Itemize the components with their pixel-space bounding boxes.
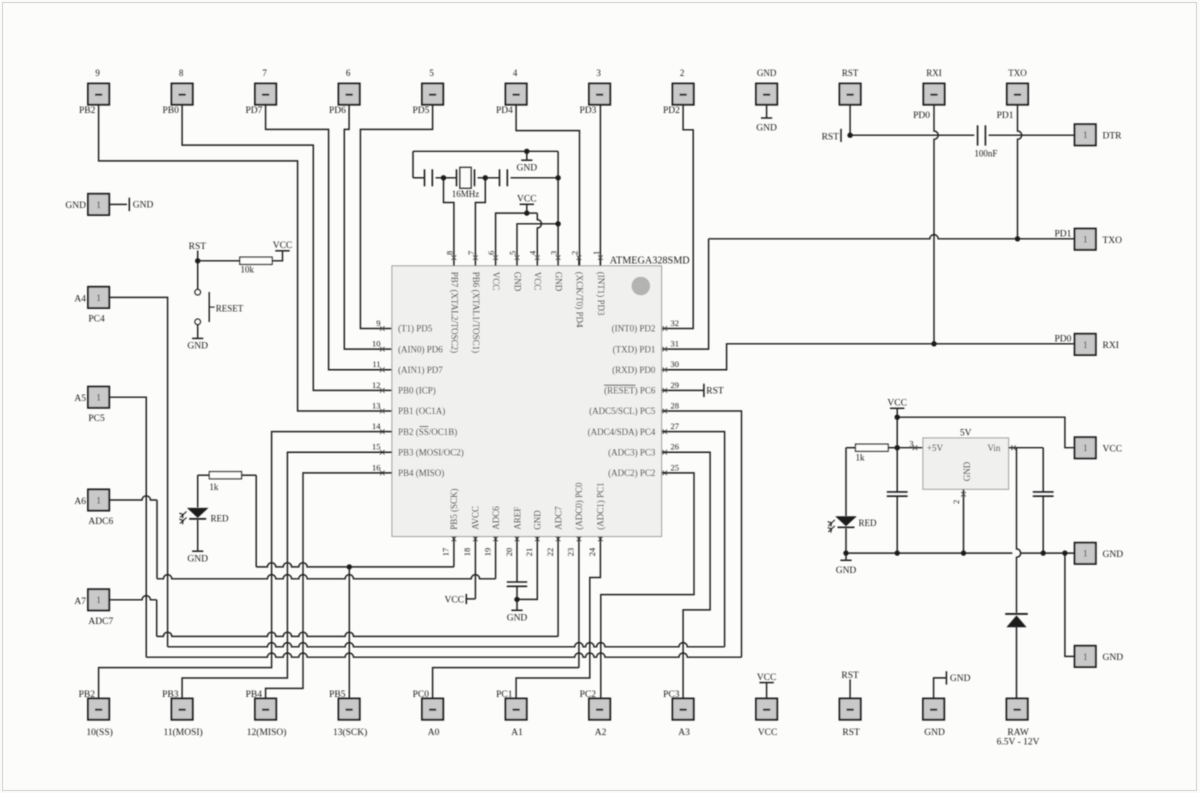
svg-text:9: 9 (376, 318, 380, 328)
svg-text:11(MOSI): 11(MOSI) (163, 727, 202, 738)
wire C7 to rail (1042, 497, 1044, 553)
wire D1 to RAW pad (1016, 627, 1018, 698)
svg-text:AREF: AREF (512, 507, 522, 530)
wire C3 to crystal (436, 177, 457, 179)
svg-text:GND: GND (517, 164, 538, 174)
wire A5 to PC5 (pin28) vertical run (109, 397, 146, 657)
svg-text:12(MISO): 12(MISO) (247, 727, 287, 738)
svg-text:13(SCK): 13(SCK) (333, 727, 367, 738)
wire GND pad to ground bottom (934, 678, 947, 699)
wire switch to ground (197, 325, 199, 338)
wire AVCC pin18 to VCC (474, 537, 476, 599)
IC pin 2 (XCK/T0) PD4 (top) (578, 256, 580, 266)
pad GND left header (88, 194, 109, 215)
IC pin 32 (INT0) PD2 (right) (663, 326, 668, 331)
IC U1 ATMEGA328SMD body (392, 266, 662, 537)
IC pin 1 (INT1) PD3 (top) (599, 256, 601, 266)
switch S1 RESET (195, 289, 201, 295)
IC pin 29 (RESET) PC6 (right) (663, 388, 668, 393)
wire pin23 to PC0 pad (578, 537, 580, 668)
pad GND right header (1075, 543, 1096, 564)
svg-text:3: 3 (596, 68, 601, 78)
svg-text:6.5V - 12V: 6.5V - 12V (997, 738, 1040, 748)
IC pin 8 PB7 (XTAL2/TOSC2) (top) (453, 256, 455, 266)
svg-text:PD6: PD6 (329, 106, 346, 116)
wire left down to crystal row (412, 151, 414, 178)
wire AREF pin20 to C5 (516, 537, 518, 582)
svg-text:6: 6 (346, 68, 351, 78)
resistor R3 1k (856, 444, 889, 451)
pad A7 (ADC7) left header (88, 589, 109, 610)
IC pin 12 PB0 (ICP) (left) (380, 388, 385, 393)
svg-text:VCC: VCC (517, 195, 537, 205)
svg-text:PB0 (ICP): PB0 (ICP) (398, 386, 436, 396)
pad RAW bottom header (1007, 699, 1028, 720)
wire VCC to VCC pad (897, 417, 1074, 448)
IC pin 25 (ADC2) PC2 (right) (663, 471, 668, 476)
junction GND top (524, 149, 529, 154)
IC pin 19 ADC6 (bottom) (493, 537, 498, 542)
IC pin 6 VCC (top) (495, 256, 497, 266)
IC pin 4 VCC (top) (536, 256, 538, 266)
wire PB5 pad riser (348, 567, 350, 698)
IC pin 31 (TXD) PD1 (right) (663, 347, 668, 352)
svg-text:5: 5 (507, 251, 517, 255)
svg-text:8: 8 (444, 251, 454, 255)
junction VCC top (524, 210, 529, 215)
IC pin 9 (T1) PD5 (left) (380, 326, 385, 331)
svg-text:(RXD) PD0: (RXD) PD0 (612, 365, 656, 375)
wire pin15 to PB3 pad (182, 452, 392, 698)
junction SCK / PB5 pad (347, 564, 352, 569)
pad RST bottom header (840, 699, 861, 720)
svg-text:10: 10 (372, 339, 381, 349)
wire ADC6 line to pin19 (hops) (157, 575, 496, 579)
svg-text:GND: GND (924, 728, 945, 738)
svg-text:GND: GND (554, 272, 564, 292)
wire RST to R2 (198, 260, 240, 262)
svg-text:10(SS): 10(SS) (86, 727, 112, 738)
VCC symbol bottom VCC pad (759, 682, 773, 684)
wire A5 line to pin28 (hops) (146, 653, 741, 657)
svg-text:7: 7 (466, 251, 476, 255)
wire A7 to ADC7 (pin22), hops A5 run (109, 596, 157, 600)
node RST at pin29 (662, 389, 704, 391)
svg-text:(RESET) PC6: (RESET) PC6 (604, 386, 656, 396)
svg-text:1: 1 (1083, 235, 1088, 245)
svg-text:25: 25 (671, 462, 680, 472)
svg-text:PB0: PB0 (163, 106, 180, 116)
svg-text:VCC: VCC (491, 272, 501, 291)
wire PD6 pad6 to pin10 (344, 105, 392, 349)
wire PD4 pad4 to pin2 (516, 105, 579, 266)
svg-text:1: 1 (96, 595, 101, 605)
wire GND pin5 to pin3 rail (517, 224, 558, 256)
ground symbol power rail (845, 553, 847, 560)
svg-text:21: 21 (524, 548, 534, 557)
IC pin 18 AVCC (bottom) (473, 537, 478, 542)
svg-text:ADC6: ADC6 (491, 506, 501, 530)
svg-text:PD3: PD3 (579, 106, 596, 116)
IC pin 10 (AIN0) PD6 (left) (380, 347, 385, 352)
wire A4 to PC4 (pin27) vertical run (109, 297, 167, 646)
IC pin 26 (ADC3) PC3 (right) (663, 450, 668, 455)
svg-text:RST: RST (822, 132, 840, 142)
capacitor C5 AREF (507, 581, 527, 583)
svg-text:2: 2 (680, 68, 685, 78)
svg-text:18: 18 (462, 548, 472, 557)
svg-text:A1: A1 (511, 728, 523, 738)
wire A6 to ADC6 (pin19), hops A5 run (109, 496, 157, 500)
junction VCC reg top (895, 415, 900, 420)
wire GND rail down to pin3 (557, 178, 559, 256)
svg-text:100nF: 100nF (974, 149, 997, 159)
wire pin14 to PB2 pad (99, 432, 392, 698)
wire crystal top GND rail (413, 150, 558, 152)
svg-text:TXO: TXO (1008, 68, 1027, 78)
svg-text:(ADC5/SCL) PC5: (ADC5/SCL) PC5 (589, 406, 656, 416)
svg-text:PB2: PB2 (79, 106, 96, 116)
ground symbol reset switch (192, 337, 203, 339)
IC pin 16 PB4 (MISO) (left) (380, 471, 385, 476)
svg-text:GND: GND (962, 461, 972, 481)
capacitor C2 100nF (977, 125, 979, 145)
wire R3 to +5V node (888, 447, 897, 449)
svg-text:8: 8 (179, 68, 184, 78)
wire pin24 to PC1 pad (jog) (516, 537, 600, 699)
svg-text:PB3 (MOSI/OC2): PB3 (MOSI/OC2) (398, 447, 464, 457)
junction xtal left (441, 175, 446, 180)
svg-text:(ADC1) PC1: (ADC1) PC1 (596, 483, 606, 530)
svg-text:RST: RST (842, 728, 860, 738)
svg-text:GND: GND (512, 272, 522, 292)
ground symbol below GND pad (766, 105, 768, 118)
svg-text:PB1 (OC1A): PB1 (OC1A) (398, 406, 445, 416)
svg-text:9: 9 (95, 68, 100, 78)
wire Vin node to C7 (1017, 447, 1044, 449)
svg-text:DTR: DTR (1103, 132, 1123, 142)
capacitor C3 (left xtal cap) (424, 169, 426, 186)
svg-text:ATMEGA328SMD: ATMEGA328SMD (610, 255, 690, 266)
junction xtal right (483, 175, 488, 180)
svg-text:2: 2 (951, 500, 961, 504)
svg-text:PB4 (MISO): PB4 (MISO) (398, 468, 444, 478)
svg-text:1: 1 (1083, 549, 1088, 559)
svg-text:VCC: VCC (533, 272, 543, 291)
IC pin 14 PB2 (SS/OC1B) (left) (380, 429, 385, 434)
pad A4 (PC4) left header (88, 287, 109, 308)
IC pin 21 GND (bottom) (535, 537, 540, 542)
svg-text:10k: 10k (240, 264, 254, 274)
junction C6 gnd (895, 550, 900, 555)
crystal Q1 16MHz (456, 169, 458, 186)
svg-text:3: 3 (909, 438, 913, 448)
wire RST to switch S1 (197, 261, 199, 289)
svg-text:PD2: PD2 (663, 106, 680, 116)
svg-text:16: 16 (372, 462, 381, 472)
svg-text:(XCK/T0) PD4: (XCK/T0) PD4 (574, 272, 584, 328)
svg-text:1: 1 (96, 393, 101, 403)
wire PD7 pad7 to pin11 (266, 105, 392, 370)
wire R1 left to LED1 (198, 474, 210, 476)
IC pin 27 (ADC4/SDA) PC4 (right) (663, 429, 668, 434)
svg-text:PB5 (SCK): PB5 (SCK) (449, 489, 459, 530)
wire regulator Vin pin to RAW/diode node (1009, 447, 1017, 449)
wire pin30 RXD to RXI pad (662, 344, 1075, 370)
diode D1 (1006, 615, 1026, 627)
capacitor C4 (right xtal cap) (499, 169, 501, 186)
svg-text:ADC7: ADC7 (553, 506, 563, 530)
svg-text:VCC: VCC (444, 596, 464, 606)
wire crystal to C4 (478, 177, 500, 179)
svg-text:PD0: PD0 (913, 111, 930, 121)
pad VCC right header (1075, 437, 1096, 458)
svg-text:(TXD) PD1: (TXD) PD1 (613, 344, 656, 354)
svg-text:VCC: VCC (757, 673, 777, 683)
wire PB0 pad8 to pin12 (182, 105, 392, 391)
wire C4 to GND drop (511, 177, 559, 179)
pad GND2 right header (1075, 646, 1096, 667)
svg-text:6: 6 (486, 251, 496, 255)
svg-text:(INT0) PD2: (INT0) PD2 (612, 324, 656, 334)
svg-text:VCC: VCC (887, 399, 907, 409)
svg-text:A6: A6 (74, 497, 86, 507)
VCC symbol above IC (520, 203, 534, 205)
wire pin25 to PC2 pad (601, 473, 694, 698)
svg-text:PD4: PD4 (496, 106, 513, 116)
junction right xtal rail (555, 175, 560, 180)
junction gnd rail to GND2 drop (1062, 550, 1067, 555)
svg-text:23: 23 (566, 548, 576, 557)
wire gnd rail to GND2 pad (1065, 553, 1074, 656)
pad DTR right header (1075, 124, 1096, 145)
wire TXO pad down to TXD net (hops DTR wire) (1018, 105, 1022, 239)
wire pin27 riser (662, 432, 725, 647)
IC pin 23 (ADC0) PC0 (bottom) (577, 537, 582, 542)
junction AREF gnd (514, 597, 519, 602)
svg-text:RED: RED (859, 518, 878, 528)
svg-text:GND: GND (1103, 653, 1124, 663)
capacitor C6 (VCC filter) (887, 491, 908, 493)
svg-text:5: 5 (429, 68, 434, 78)
wire PD2 pad2 to pin32 (662, 105, 694, 329)
svg-text:A3: A3 (678, 728, 690, 738)
wire R2 to VCC (272, 251, 282, 261)
wire GND pin21 (517, 537, 537, 600)
svg-text:GND: GND (65, 201, 86, 211)
wire R1 to SCK net riser (242, 474, 257, 476)
svg-text:GND: GND (533, 510, 543, 530)
IC pin1 marker circle (632, 277, 651, 296)
svg-text:1k: 1k (209, 482, 219, 492)
capacitor C7 (Vin filter) (1033, 491, 1054, 493)
wire xtal right riser to pin7 (475, 178, 485, 256)
IC pin 11 (AIN1) PD7 (left) (380, 367, 385, 372)
VCC symbol regulator (890, 407, 904, 409)
junction LED2 gnd (843, 550, 848, 555)
svg-text:(T1) PD5: (T1) PD5 (398, 324, 433, 334)
junction +5V node (895, 445, 900, 450)
svg-text:11: 11 (372, 359, 380, 369)
svg-text:VCC: VCC (758, 728, 778, 738)
svg-text:GND: GND (756, 124, 777, 134)
svg-text:A2: A2 (595, 728, 607, 738)
wire pin31 TXD to TXO pad (662, 239, 709, 349)
svg-text:12: 12 (372, 380, 381, 390)
svg-text:1: 1 (1083, 443, 1088, 453)
wire PD5 pad5 to pin9 (360, 105, 432, 329)
svg-text:(AIN0) PD6: (AIN0) PD6 (398, 344, 443, 354)
svg-text:Vin: Vin (987, 443, 1000, 453)
svg-text:1: 1 (96, 495, 101, 505)
resistor R2 10k (240, 257, 272, 264)
svg-text:PB2 (SS/OC1B): PB2 (SS/OC1B) (398, 427, 457, 437)
wire A4 line to pin27 (hops) (168, 643, 725, 647)
IC pin 20 AREF (bottom) (515, 537, 520, 542)
IC pin 15 PB3 (MOSI/OC2) (left) (380, 450, 385, 455)
svg-text:19: 19 (482, 548, 492, 557)
svg-text:3: 3 (549, 251, 559, 255)
svg-text:(ADC4/SDA) PC4: (ADC4/SDA) PC4 (588, 427, 656, 437)
svg-text:1k: 1k (856, 452, 866, 462)
IC pin 5 GND (top) (516, 256, 518, 266)
svg-text:22: 22 (545, 548, 555, 557)
junction RST (847, 133, 852, 138)
wire R3 left to LED2 (846, 447, 856, 449)
ground symbol AREF (516, 599, 518, 610)
svg-text:+5V: +5V (927, 443, 944, 453)
svg-text:RESET: RESET (216, 303, 244, 313)
wire GND drop right side (557, 151, 559, 178)
wire +5V to regulator pin3 (897, 447, 923, 449)
wire GND pad to ground (109, 203, 127, 205)
junction C7 gnd (1041, 550, 1046, 555)
svg-text:GND: GND (133, 201, 154, 211)
wire C5 to ground junction (516, 586, 518, 599)
svg-text:GND: GND (187, 554, 208, 564)
svg-text:RST: RST (706, 387, 724, 397)
svg-text:7: 7 (262, 68, 267, 78)
svg-text:1: 1 (591, 251, 601, 255)
svg-text:1: 1 (1083, 340, 1088, 350)
VCC symbol AVCC (465, 594, 467, 604)
pad GND bottom header (923, 699, 944, 720)
svg-text:A4: A4 (74, 294, 86, 304)
svg-text:PD7: PD7 (245, 106, 262, 116)
ground symbol bottom GND pad (945, 671, 947, 684)
svg-text:A0: A0 (428, 728, 440, 738)
voltage regulator VR1 5V body (923, 438, 1009, 489)
wire ADC7 line to pin22 (hops) (157, 632, 558, 636)
svg-text:20: 20 (504, 548, 514, 557)
IC pin 28 (ADC5/SCL) PC5 (right) (663, 409, 668, 414)
pad TXO right header (1075, 229, 1096, 250)
IC pin 17 PB5 (SCK) (bottom) (452, 537, 457, 542)
svg-text:30: 30 (671, 359, 680, 369)
svg-text:(INT1) PD3: (INT1) PD3 (596, 272, 606, 316)
IC pin 24 (ADC1) PC1 (bottom) (598, 537, 603, 542)
IC pin 3 GND (top) (557, 256, 559, 266)
svg-text:TXO: TXO (1103, 236, 1123, 246)
svg-text:4: 4 (513, 68, 518, 78)
IC pin 13 PB1 (OC1A) (left) (380, 409, 385, 414)
ground symbol LED1 (192, 550, 203, 552)
pad VCC bottom header (756, 699, 777, 720)
junction RST reset (195, 258, 200, 263)
svg-text:14: 14 (372, 421, 381, 431)
wire VCC to pin6 (496, 213, 527, 256)
svg-text:PD1: PD1 (1055, 230, 1072, 240)
svg-text:5V: 5V (960, 428, 972, 438)
LED1 RED (187, 508, 209, 518)
wire RXI pad down to RXD net (hops RST wire) (934, 105, 938, 344)
svg-text:31: 31 (671, 339, 680, 349)
svg-text:AVCC: AVCC (471, 506, 481, 530)
svg-text:28: 28 (671, 400, 680, 410)
junction TXO/PD1 (1015, 236, 1020, 241)
svg-text:17: 17 (441, 548, 451, 557)
svg-text:1: 1 (96, 293, 101, 303)
svg-text:13: 13 (372, 400, 381, 410)
svg-text:PC4: PC4 (88, 314, 105, 324)
svg-text:RXI: RXI (1103, 341, 1119, 351)
gnd rail power section (846, 552, 1012, 554)
svg-text:2: 2 (569, 251, 579, 255)
svg-text:PB7 (XTAL2/TOSC2): PB7 (XTAL2/TOSC2) (449, 272, 459, 353)
svg-text:(ADC3) PC3: (ADC3) PC3 (608, 447, 656, 457)
IC pin 22 ADC7 (bottom) (556, 537, 561, 542)
wire Vin node down (hops gnd rail) to diode D1 (1017, 448, 1021, 613)
svg-text:GND: GND (187, 342, 208, 352)
svg-text:32: 32 (671, 318, 680, 328)
wire pin28 riser (662, 411, 742, 657)
ground symbol crystal (526, 151, 528, 160)
wire VCC to pin4 (hops GND wire) (527, 212, 538, 214)
svg-text:(AIN1) PD7: (AIN1) PD7 (398, 365, 443, 375)
wire PB2 pad9 to pin13 (99, 105, 392, 411)
svg-text:15: 15 (372, 442, 381, 452)
VCC symbol reset pullup (275, 250, 289, 252)
wire SCK net to pin17 (hops runs) (256, 563, 454, 567)
svg-text:(ADC0) PC0: (ADC0) PC0 (574, 482, 584, 530)
junction GND rail right (555, 221, 560, 226)
svg-text:1: 1 (96, 200, 101, 210)
wire VCC node to C6 / C6 to rail (896, 448, 898, 492)
svg-text:GND: GND (757, 68, 777, 78)
ground symbol right of GND pad (128, 198, 130, 211)
wire C2 to DTR pad (989, 134, 1075, 136)
wire pin26 to PC3 pad (662, 452, 711, 698)
svg-text:26: 26 (671, 442, 680, 452)
svg-text:A5: A5 (74, 394, 86, 404)
wire pin16 to PB4 pad (266, 473, 392, 698)
wire PD3 pad3 to pin1 (599, 105, 602, 266)
svg-text:29: 29 (671, 380, 680, 390)
svg-text:A7: A7 (74, 597, 86, 607)
pad RXI right header (1075, 334, 1096, 355)
svg-text:RST: RST (842, 68, 859, 78)
svg-text:PB6 (XTAL1/TOSC1): PB6 (XTAL1/TOSC1) (471, 272, 481, 353)
svg-text:VCC: VCC (273, 241, 293, 251)
svg-text:GND: GND (950, 674, 971, 684)
pad A5 (PC5) left header (88, 387, 109, 408)
wire RST pad to RST node (849, 105, 851, 136)
svg-text:(ADC2) PC2: (ADC2) PC2 (608, 468, 655, 478)
svg-text:16MHz: 16MHz (452, 189, 480, 199)
junction reg gnd (961, 550, 966, 555)
wire regulator GND pin2 to rail (963, 489, 965, 553)
pad A6 (ADC6) left header (88, 489, 109, 510)
